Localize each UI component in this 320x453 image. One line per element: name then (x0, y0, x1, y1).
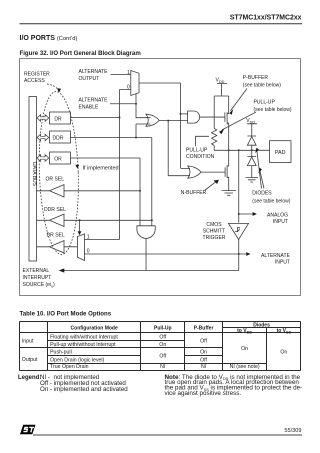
svg-text:P-Buffer: P-Buffer (194, 325, 214, 331)
svg-text:CMOS: CMOS (206, 222, 222, 228)
svg-text:Input: Input (22, 338, 34, 344)
svg-text:Off: Off (159, 354, 166, 360)
svg-text:Figure 32. I/O Port General Bl: Figure 32. I/O Port General Block Diagra… (20, 50, 142, 57)
svg-text:SOURCE (eix): SOURCE (eix) (23, 282, 56, 288)
svg-text:SCHMITT: SCHMITT (203, 229, 225, 235)
svg-text:Legend:: Legend: (18, 374, 41, 381)
svg-text:OR: OR (54, 156, 62, 162)
svg-text:(see table below): (see table below) (243, 82, 281, 88)
svg-text:Off: Off (200, 357, 207, 363)
svg-text:ACCESS: ACCESS (24, 78, 45, 84)
svg-text:On: On (200, 349, 207, 355)
svg-text:ENABLE: ENABLE (79, 104, 100, 110)
svg-text:to VSS​: to VSS​ (277, 328, 292, 334)
svg-text:vice against positive stress.: vice against positive stress. (165, 390, 242, 397)
svg-text:VDD: VDD (246, 118, 255, 124)
svg-text:ST7MC1xx/ST7MC2xx: ST7MC1xx/ST7MC2xx (230, 15, 302, 22)
svg-text:On - implemented and activated: On - implemented and activated (40, 386, 128, 393)
svg-text:1: 1 (87, 234, 90, 240)
svg-text:ALTERNATE: ALTERNATE (79, 97, 109, 103)
svg-text:DATA BUS: DATA BUS (31, 162, 37, 187)
svg-text:PULL-UP: PULL-UP (254, 100, 276, 106)
svg-text:(see table below): (see table below) (254, 107, 292, 113)
svg-text:On: On (241, 346, 248, 352)
svg-text:0: 0 (127, 85, 130, 91)
svg-text:NI: NI (160, 364, 165, 370)
svg-text:OUTPUT: OUTPUT (79, 76, 100, 82)
svg-text:On: On (280, 350, 287, 356)
svg-text:Off: Off (159, 334, 166, 340)
svg-text:55/309: 55/309 (284, 428, 301, 434)
svg-text:(see table below): (see table below) (252, 198, 290, 204)
svg-text:1: 1 (127, 70, 130, 76)
svg-text:INPUT: INPUT (275, 259, 290, 265)
svg-text:Configuration Mode: Configuration Mode (71, 325, 118, 331)
svg-text:ALTERNATE: ALTERNATE (261, 253, 291, 259)
svg-text:Diodes: Diodes (253, 323, 270, 329)
svg-text:If implemented: If implemented (83, 165, 119, 171)
svg-text:PAD: PAD (275, 150, 286, 156)
svg-text:Pull-up with/without Interrupt: Pull-up with/without Interrupt (50, 342, 116, 348)
svg-text:On: On (159, 342, 166, 348)
svg-text:TRIGGER: TRIGGER (203, 235, 226, 241)
svg-text:DDR SEL: DDR SEL (44, 207, 66, 213)
svg-text:NI: NI (201, 364, 206, 370)
svg-text:ANALOG: ANALOG (267, 212, 288, 218)
svg-text:0: 0 (87, 249, 90, 255)
svg-text:OR SEL: OR SEL (46, 176, 65, 182)
svg-text:I/O PORTS (Cont’d): I/O PORTS (Cont’d) (20, 35, 78, 42)
svg-text:Floating with/without Interrup: Floating with/without Interrupt (50, 334, 118, 340)
svg-text:NI (see note): NI (see note) (230, 364, 260, 370)
svg-text:to VDD​: to VDD​ (237, 328, 252, 334)
svg-text:Open Drain (logic level): Open Drain (logic level) (50, 357, 104, 363)
svg-text:DR: DR (54, 116, 62, 122)
svg-text:EXTERNAL: EXTERNAL (23, 268, 50, 274)
svg-text:DDR: DDR (53, 135, 64, 141)
svg-text:INTERRUPT: INTERRUPT (23, 275, 52, 281)
svg-text:DIODES: DIODES (252, 191, 272, 197)
svg-text:P-BUFFER: P-BUFFER (243, 75, 269, 81)
svg-text:INPUT: INPUT (273, 219, 288, 225)
svg-text:Table 10. I/O Port Mode Option: Table 10. I/O Port Mode Options (20, 310, 112, 317)
svg-text:N-BUFFER: N-BUFFER (181, 190, 207, 196)
svg-text:PULL-UP: PULL-UP (186, 148, 208, 154)
svg-text:ALTERNATE: ALTERNATE (79, 69, 109, 75)
svg-text:True Open Drain: True Open Drain (50, 364, 89, 370)
svg-text:Output: Output (22, 357, 38, 363)
svg-text:Off: Off (200, 338, 207, 344)
svg-text:CONDITION: CONDITION (186, 154, 215, 160)
svg-text:DR SEL: DR SEL (47, 232, 65, 238)
svg-text:Push-pull: Push-pull (50, 349, 72, 355)
svg-text:REGISTER: REGISTER (24, 72, 50, 78)
svg-text:VDD: VDD (216, 78, 225, 84)
svg-text:Pull-Up: Pull-Up (154, 325, 172, 331)
